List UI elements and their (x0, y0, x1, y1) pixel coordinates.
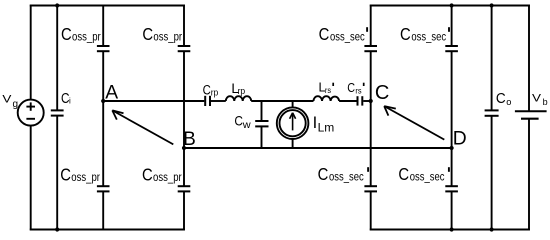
svg-text:C: C (61, 24, 72, 44)
wire bottom-right rail (370, 229, 530, 231)
svg-text:C: C (347, 81, 355, 95)
svg-text:oss_pr: oss_pr (71, 170, 100, 184)
svg-text:g: g (13, 99, 19, 110)
arrow B to A (112, 110, 173, 144)
svg-text:w: w (242, 120, 252, 131)
svg-text:oss_sec: oss_sec (330, 30, 365, 44)
arrow D to C (384, 106, 444, 140)
svg-text:B: B (183, 129, 196, 150)
svg-text:V: V (2, 93, 12, 105)
svg-text:D: D (453, 128, 467, 149)
svg-text:oss_sec: oss_sec (329, 170, 364, 184)
wire left bridge leg 2 (183, 5, 185, 46)
source Vg (18, 100, 44, 126)
svg-text:oss_pr: oss_pr (153, 170, 182, 184)
svg-text:C: C (400, 24, 411, 44)
svg-text:C: C (142, 164, 153, 184)
svg-text:oss_pr: oss_pr (153, 29, 182, 43)
wire Crs' to node C (363, 100, 371, 102)
current source ILm (292, 101, 294, 107)
wire left bridge leg 1 (102, 5, 104, 46)
wire top-right rail (370, 5, 530, 7)
wire Vg branch bottom (30, 126, 32, 231)
node junction leg4 bottom (450, 227, 454, 231)
node C (369, 99, 373, 103)
svg-text:oss_sec: oss_sec (410, 170, 445, 184)
wire right bridge leg 3 (370, 5, 372, 46)
svg-text:rp: rp (238, 86, 246, 96)
capacitor Coss_pr bottom-right (178, 185, 191, 187)
inductor Lrs' (314, 96, 340, 101)
svg-text:oss_sec: oss_sec (411, 30, 446, 44)
svg-text:C: C (60, 164, 71, 184)
svg-text:rp: rp (211, 87, 219, 97)
node junction Co top (490, 3, 494, 7)
wire right bridge leg 4 (451, 5, 453, 46)
capacitor Coss_sec' top-right (445, 45, 458, 47)
svg-text:rs: rs (355, 86, 361, 96)
svg-text:C: C (318, 164, 329, 184)
capacitor Coss_pr bottom-left (97, 185, 110, 187)
capacitor Co (491, 5, 493, 111)
wire node B to node D (184, 147, 452, 149)
svg-text:C: C (375, 82, 389, 104)
node D (450, 146, 454, 150)
svg-text:b: b (543, 97, 548, 107)
wire Lrs' to Crs' (339, 100, 357, 102)
capacitor Crp (204, 96, 206, 106)
capacitor Coss_sec' bottom-right (445, 185, 458, 187)
capacitor Coss_pr top-left (97, 45, 110, 47)
capacitor Cw (261, 101, 263, 121)
capacitor Coss_sec' top-left (364, 45, 377, 47)
svg-text:rs: rs (325, 85, 331, 95)
wire Lrp to Lrs (251, 100, 313, 102)
svg-text:C: C (142, 24, 153, 44)
node junction Ci top (55, 3, 59, 7)
svg-text:A: A (105, 83, 118, 104)
node B (182, 146, 186, 150)
node A (101, 99, 105, 103)
capacitor Coss_pr top-right (178, 45, 191, 47)
wire Vg branch top (30, 5, 32, 100)
svg-text:C: C (496, 91, 506, 107)
node junction Ci bottom (55, 227, 59, 231)
svg-text:oss_pr: oss_pr (72, 29, 101, 43)
capacitor Coss_sec' bottom-left (364, 185, 377, 187)
svg-text:C: C (234, 112, 243, 128)
source Vb battery (528, 5, 530, 112)
svg-text:o: o (506, 97, 511, 107)
svg-text:C: C (319, 24, 330, 44)
capacitor Crs' (357, 96, 359, 105)
node junction Co bottom (490, 227, 494, 231)
wire node A to Crp (103, 100, 204, 102)
wire bottom-left rail (30, 229, 185, 231)
svg-text:V: V (532, 93, 542, 105)
wire top-left rail (30, 5, 185, 7)
svg-text:I: I (313, 114, 318, 132)
svg-text:i: i (69, 97, 71, 106)
capacitor Ci (56, 5, 58, 111)
inductor Lrp (226, 96, 251, 101)
node junction leg4 top (450, 3, 454, 7)
svg-text:C: C (398, 164, 409, 184)
svg-text:Lm: Lm (318, 121, 335, 135)
wire Crp to Lrp (211, 100, 226, 102)
